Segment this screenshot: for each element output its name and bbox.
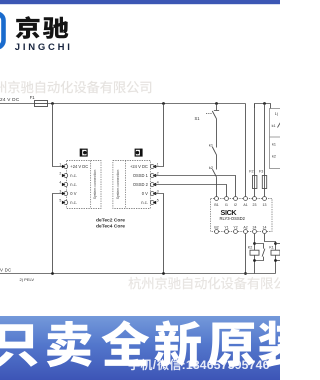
wire receiver 0V <box>154 194 163 274</box>
logo blue bracket mark <box>0 14 4 48</box>
watermark 杭州京驰自动化设备有限公 <box>128 277 286 290</box>
connector block receiver (deTec) <box>113 161 150 209</box>
node junction fuse-sender drop <box>51 102 54 105</box>
svg-text:K1: K1 <box>269 245 274 249</box>
svg-text:Y1: Y1 <box>224 226 228 230</box>
svg-text:13: 13 <box>263 203 267 207</box>
svg-text:A1: A1 <box>243 203 247 207</box>
sender pin 5 (n.c.) <box>59 199 77 205</box>
svg-text:F1: F1 <box>30 95 36 100</box>
sender pin 4 (n.c.) <box>59 181 77 187</box>
wire 0V rail <box>0 273 276 275</box>
wire S1 to k1 <box>216 119 218 148</box>
wire OSSD1 to relay I2 <box>154 176 235 197</box>
svg-text:2: 2 <box>157 172 159 176</box>
wire +24V rail left of fuse <box>0 103 35 105</box>
svg-text:System connection: System connection <box>93 170 97 200</box>
wire contact 24 to K2 coil <box>254 234 256 251</box>
wire k2 to relay B1 <box>216 177 218 196</box>
svg-text:k1: k1 <box>272 143 276 147</box>
fuse F1 <box>35 103 48 105</box>
suppressor across K1 (clipped) <box>276 244 284 261</box>
svg-text:4: 4 <box>157 181 159 185</box>
banner phone 手机/微信 number <box>129 358 270 372</box>
svg-text:1: 1 <box>59 163 61 167</box>
banner text 只卖全新原装 <box>0 320 305 367</box>
svg-text:JINGCHI: JINGCHI <box>15 42 73 53</box>
receiver icon <box>135 149 142 156</box>
svg-text:k2: k2 <box>272 155 276 159</box>
svg-text:1): 1) <box>275 112 278 116</box>
svg-text::134657395746: :134657395746 <box>182 358 270 372</box>
legend note box 1) <box>270 109 283 169</box>
contact k2 <box>212 169 216 177</box>
sender icon <box>80 149 87 156</box>
svg-text:3: 3 <box>59 190 61 194</box>
wire K2 coil to 0V rail <box>254 255 256 273</box>
sender system connection divider <box>90 161 92 209</box>
relay terminal A2 (bottom) <box>243 226 247 234</box>
receiver pin 1 (+24 V DC) <box>130 163 159 169</box>
svg-text:5: 5 <box>59 199 61 203</box>
relay terminal 13 (top) <box>263 197 267 207</box>
svg-text:0 V: 0 V <box>70 191 76 196</box>
relay terminal I1 (top) <box>225 197 229 207</box>
wire k1 to k2 <box>216 155 218 170</box>
svg-text:n.c.: n.c. <box>70 200 77 205</box>
svg-text:3: 3 <box>157 190 159 194</box>
relay terminal Y1 (bottom) <box>224 226 228 234</box>
svg-text:OSSD 1: OSSD 1 <box>133 173 149 178</box>
relay terminal B2 (bottom) <box>214 226 218 234</box>
relay coil K2 <box>250 250 259 255</box>
relay terminal A1 (top) <box>243 197 247 207</box>
wire relay A2 to 0V rail <box>245 234 247 274</box>
svg-text:5: 5 <box>157 199 159 203</box>
contact k1 <box>212 147 216 155</box>
receiver pin 4 (OSSD 2) <box>133 181 159 187</box>
wire +24V rail main <box>48 103 246 105</box>
svg-text:RLY3-OSSD2: RLY3-OSSD2 <box>220 216 246 221</box>
bottom banner background <box>0 316 280 380</box>
svg-text:k1: k1 <box>209 143 213 148</box>
node junction K1 top <box>274 242 277 245</box>
relay coil K1 <box>271 250 280 255</box>
relay terminal I2 (top) <box>234 197 238 207</box>
node junction K1 bottom <box>274 259 277 262</box>
fuse F2 <box>254 104 256 197</box>
connector block sender (deTec) <box>67 161 101 209</box>
svg-text:deTec2 Core: deTec2 Core <box>96 218 125 224</box>
relay terminal Y2 (bottom) <box>233 226 237 234</box>
svg-text:k1: k1 <box>272 124 276 128</box>
wire +24V stub to F2/F3 <box>255 104 271 109</box>
svg-text:1: 1 <box>157 163 159 167</box>
suppressor across K2 <box>255 244 265 261</box>
node junction S1 chain on rail <box>215 102 218 105</box>
node junction K2 bottom <box>253 259 256 262</box>
svg-text:S1: S1 <box>195 116 201 121</box>
sender pin 2 (n.c.) <box>59 172 77 178</box>
svg-text:24: 24 <box>253 226 257 230</box>
svg-text:OSSD 2: OSSD 2 <box>133 182 149 187</box>
receiver pin 5 (n.c.) <box>141 199 159 205</box>
wire OSSD2 to relay I1 <box>154 185 226 197</box>
svg-text:0 V: 0 V <box>142 191 148 196</box>
svg-text:+24 V DC: +24 V DC <box>130 164 148 169</box>
wire rail to relay A1 <box>245 104 247 197</box>
svg-text:4: 4 <box>59 181 61 185</box>
relay terminal B1 (top) <box>214 197 218 207</box>
fuse F3 <box>264 104 266 197</box>
relay terminal 14 (bottom) <box>263 226 267 234</box>
node junction sender 0V on rail <box>51 272 54 275</box>
svg-text:n.c.: n.c. <box>70 173 77 178</box>
logo text 京驰 <box>16 16 69 39</box>
svg-text:F2: F2 <box>249 170 253 174</box>
relay module SICK RLY3-OSSD2 <box>211 199 273 232</box>
svg-text:2) PELV: 2) PELV <box>20 277 35 282</box>
svg-text:F3: F3 <box>259 170 263 174</box>
svg-text:A2: A2 <box>243 226 247 230</box>
sender pin 1 (+24 V DC) <box>59 163 88 169</box>
watermark 州京驰自动化设备有限公司 <box>0 81 151 94</box>
svg-text:2: 2 <box>59 172 61 176</box>
node junction A2 on 0V rail <box>244 272 247 275</box>
svg-text:+24 V DC: +24 V DC <box>0 97 20 102</box>
svg-text:System connection: System connection <box>116 170 120 200</box>
wire contact 14 to K1 coil <box>265 234 276 251</box>
node junction F3 stub <box>263 102 266 105</box>
svg-text:23: 23 <box>253 203 257 207</box>
svg-text:I2: I2 <box>234 203 237 207</box>
svg-text:B1: B1 <box>214 203 218 207</box>
top blue bar <box>0 0 280 4</box>
relay terminal 24 (bottom) <box>253 226 257 234</box>
svg-text:14: 14 <box>263 226 267 230</box>
node junction receiver 0V on rail <box>162 272 165 275</box>
receiver pin 3 (0 V) <box>142 190 159 196</box>
wire K1 coil to 0V rail <box>275 255 277 273</box>
svg-text:I1: I1 <box>225 203 228 207</box>
svg-text:K2: K2 <box>248 245 253 249</box>
svg-text:B2: B2 <box>214 226 218 230</box>
receiver system connection divider <box>125 161 127 209</box>
svg-text:n.c.: n.c. <box>70 182 77 187</box>
svg-text:+24 V DC: +24 V DC <box>70 164 88 169</box>
svg-text:0 V DC: 0 V DC <box>0 267 11 272</box>
wire receiver +24V <box>154 104 163 167</box>
node junction K2 top <box>253 242 256 245</box>
switch S1 (reset) <box>206 104 219 119</box>
svg-text:Y2: Y2 <box>233 226 237 230</box>
wire sender +24V drop <box>53 104 64 167</box>
wire sender 0V drop <box>53 194 64 274</box>
node junction receiver +24V on rail <box>162 102 165 105</box>
svg-text:k2: k2 <box>209 165 213 170</box>
sender pin 3 (0 V) <box>59 190 76 196</box>
receiver pin 2 (OSSD 1) <box>133 172 159 178</box>
relay terminal 23 (top) <box>253 197 257 207</box>
svg-text:deTec4 Core: deTec4 Core <box>96 224 125 230</box>
svg-text:n.c.: n.c. <box>141 200 148 205</box>
